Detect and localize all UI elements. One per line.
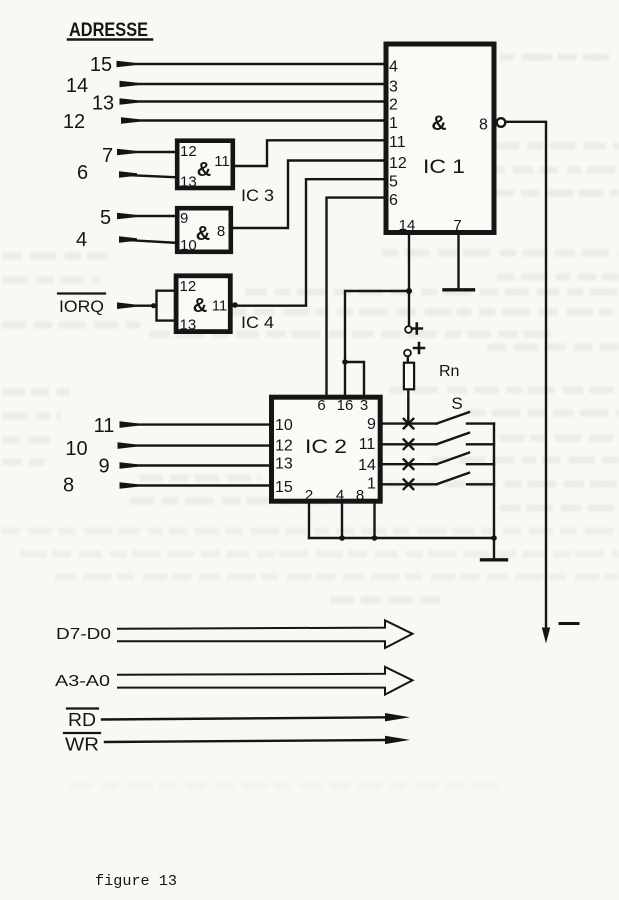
svg-text:11: 11	[212, 298, 228, 315]
node A5	[100, 207, 111, 229]
switch S1 contact	[467, 422, 494, 424]
svg-text:10: 10	[275, 417, 293, 434]
svg-text:8: 8	[356, 487, 364, 504]
svg-text:WR: WR	[65, 735, 99, 755]
svg-text:1: 1	[367, 476, 376, 493]
switch S4 contact	[467, 483, 494, 485]
svg-text:15: 15	[275, 479, 293, 496]
switch S4 blade	[437, 473, 470, 485]
svg-text:3: 3	[389, 79, 398, 96]
node IORQ	[59, 297, 104, 316]
caption figure 13	[95, 873, 177, 890]
plus supply terminal 2	[404, 343, 424, 356]
switch common wire	[493, 424, 495, 538]
svg-text:5: 5	[389, 174, 398, 191]
node A9	[98, 456, 109, 478]
svg-text:IC 3: IC 3	[241, 186, 274, 205]
wire A15 to IC1 pin 4	[117, 61, 384, 68]
svg-text:7: 7	[102, 145, 113, 167]
node A13	[92, 93, 114, 115]
svg-text:&: &	[431, 112, 446, 135]
and-gate IC4 (pins 12,13 -> 11)	[176, 276, 230, 334]
negative supply arrow	[542, 628, 550, 644]
svg-text:&: &	[193, 295, 207, 317]
svg-text:ADRESSE: ADRESSE	[69, 20, 148, 41]
IC U2: IC 2	[272, 397, 381, 504]
svg-text:RD: RD	[68, 710, 96, 730]
svg-text:&: &	[196, 223, 210, 245]
svg-text:Rn: Rn	[439, 363, 459, 380]
wire A10 to IC2 pin 12	[118, 442, 270, 449]
svg-text:8: 8	[63, 475, 74, 497]
switch S2 blade	[437, 433, 470, 445]
bus arrow A3-A0	[55, 673, 110, 690]
node A8	[63, 475, 74, 497]
svg-text:8: 8	[217, 223, 225, 240]
label ADRESSE	[69, 20, 148, 41]
svg-text:12: 12	[180, 143, 197, 160]
wire IC2 pin 8 to ground bus	[373, 501, 375, 538]
x mark row 3	[404, 459, 414, 469]
label minus	[560, 622, 578, 625]
svg-text:1: 1	[389, 115, 398, 132]
svg-text:5: 5	[100, 207, 111, 229]
wire IC2 pin 2 to ground bus	[308, 501, 310, 538]
svg-text:S: S	[451, 394, 462, 413]
wire A7 to IC3 pin 12	[117, 149, 176, 156]
svg-text:A3-A0: A3-A0	[55, 673, 110, 690]
node A4	[76, 229, 87, 251]
x mark row 1	[404, 419, 414, 429]
bus arrow D7-D0	[56, 626, 111, 643]
switch S1 blade	[437, 412, 470, 424]
IC U1: IC 1	[386, 44, 494, 234]
svg-text:13: 13	[92, 93, 114, 115]
svg-text:9: 9	[367, 416, 376, 433]
wire A13 to IC1 pin 2	[120, 98, 384, 105]
svg-text:12: 12	[180, 278, 197, 295]
svg-text:11: 11	[94, 415, 115, 437]
svg-text:12: 12	[275, 438, 293, 455]
svg-text:4: 4	[76, 229, 87, 251]
node A7	[102, 145, 113, 167]
svg-text:7: 7	[453, 217, 461, 234]
wire IC2 pin 4 to ground bus	[341, 501, 343, 538]
svg-text:IC 2: IC 2	[305, 437, 347, 458]
node A14	[66, 75, 88, 97]
svg-text:12: 12	[389, 155, 407, 172]
svg-text:4: 4	[389, 59, 398, 76]
label IC4	[241, 313, 274, 332]
wire A4 to gate pin 10	[119, 236, 176, 243]
node A10	[65, 438, 87, 460]
svg-text:14: 14	[358, 457, 376, 474]
wire IC1 pin 6 to IC2 pin 6	[327, 198, 384, 395]
wire A11 to IC2 pin 10	[120, 421, 270, 428]
wire IC1 pin 14 to plus terminal	[406, 235, 412, 327]
wire plus rail to IC2 pins 16 and 3	[342, 291, 409, 395]
wire IC2 pin 14 to switch 3	[380, 463, 436, 465]
svg-text:11: 11	[359, 436, 376, 453]
svg-text:12: 12	[63, 111, 85, 133]
resistor Rp	[404, 356, 414, 423]
switch S2 contact	[467, 443, 494, 445]
wire A9 to IC2 pin 13	[120, 462, 270, 469]
node A6	[77, 162, 88, 184]
svg-text:IC 1: IC 1	[423, 157, 465, 178]
svg-text:8: 8	[479, 117, 488, 134]
label S	[451, 394, 462, 413]
wire IC4 pin 11 to IC1 pin 5	[232, 179, 383, 308]
svg-text:IC 4: IC 4	[241, 313, 274, 332]
svg-text:&: &	[197, 159, 211, 181]
svg-text:14: 14	[66, 75, 88, 97]
wire A5 to gate pin 9	[117, 213, 176, 220]
svg-text:10: 10	[65, 438, 87, 460]
svg-text:6: 6	[317, 397, 325, 414]
x mark row 2	[404, 440, 414, 450]
node A15	[90, 54, 112, 76]
svg-text:D7-D0: D7-D0	[56, 626, 111, 643]
svg-text:13: 13	[180, 317, 197, 334]
svg-text:figure 13: figure 13	[95, 873, 177, 890]
label IC3	[241, 186, 274, 205]
wire IC2 pin 11 to switch 2	[380, 443, 436, 445]
svg-text:6: 6	[77, 162, 88, 184]
node A11	[94, 415, 115, 437]
svg-text:9: 9	[98, 456, 109, 478]
wire A14 to IC1 pin 3	[120, 81, 384, 88]
switch S3 contact	[467, 463, 494, 465]
wire IC1 pin 8 to negative supply	[505, 122, 546, 628]
wire A12 to IC1 pin 1	[121, 117, 384, 124]
svg-text:11: 11	[389, 134, 406, 151]
ground IC1 pin 7	[444, 235, 474, 290]
svg-text:9: 9	[180, 210, 188, 227]
wire A6 to IC3 pin 13	[119, 171, 176, 178]
ground (below switches)	[482, 538, 507, 560]
signal WR arrow	[65, 735, 99, 755]
svg-text:11: 11	[214, 153, 230, 170]
node A12	[63, 111, 85, 133]
svg-text:IORQ: IORQ	[59, 297, 104, 316]
wire IORQ to IC4 pins 12,13	[117, 291, 176, 321]
ground bus wire	[309, 535, 497, 541]
plus supply terminal 1	[405, 324, 422, 334]
wire gate pin 8 to IC1 pin 12	[233, 161, 384, 229]
and-gate IC3b (pins 9,10 -> 8)	[177, 208, 231, 254]
svg-text:3: 3	[360, 397, 368, 414]
wire IC2 pin 1 to switch 4	[380, 483, 436, 485]
inversion bubble IC1 pin 8	[497, 118, 506, 127]
and-gate IC3 (pins 12,13 -> 11)	[177, 141, 233, 191]
svg-text:13: 13	[180, 174, 197, 191]
switch S3 blade	[437, 453, 470, 465]
svg-text:10: 10	[180, 237, 197, 254]
wire A8 to IC2 pin 15	[120, 482, 270, 489]
svg-text:15: 15	[90, 54, 112, 76]
wire IC2 pin 9 to switch 1	[380, 422, 436, 424]
svg-text:6: 6	[389, 192, 398, 209]
svg-text:2: 2	[389, 97, 398, 114]
svg-text:14: 14	[399, 217, 416, 234]
signal RD arrow	[68, 710, 96, 730]
svg-text:16: 16	[337, 397, 354, 414]
svg-text:13: 13	[275, 456, 293, 473]
wire IC3 pin 11 to IC1 pin 11	[235, 140, 384, 166]
label Rn	[439, 363, 459, 380]
x mark row 4	[404, 480, 414, 490]
